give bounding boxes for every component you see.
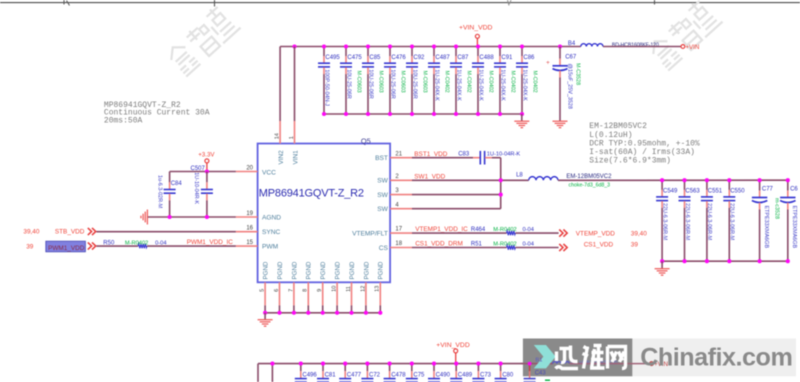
svg-text:C92: C92 [413, 55, 425, 61]
capacitor C91 [494, 47, 515, 115]
ground under C86 [514, 114, 529, 128]
resistor R51 [471, 241, 534, 249]
svg-text:C80: C80 [502, 372, 514, 378]
junction dots top rail [292, 44, 562, 48]
svg-text:EM-12BM05VC2: EM-12BM05VC2 [566, 174, 612, 180]
svg-text:MP86941GQVT-Z_R2: MP86941GQVT-Z_R2 [259, 188, 364, 200]
svg-text:PWM1_VDD: PWM1_VDD [48, 245, 85, 252]
svg-text:10U-25-06R: 10U-25-06R [367, 69, 373, 98]
svg-text:B1: B1 [535, 357, 542, 363]
svg-text:1U-10-04R-K: 1U-10-04R-K [487, 151, 521, 157]
wire VIN1 pin 1 [294, 47, 296, 144]
svg-text:C490: C490 [436, 372, 451, 378]
capacitor C495 [318, 47, 340, 115]
wire VCC rail pin 20 [170, 171, 258, 173]
svg-text:C487: C487 [435, 55, 450, 61]
junction dots right bank bottom rail [660, 259, 790, 263]
power symbol +VIN top right [681, 44, 699, 51]
svg-text:C83: C83 [458, 151, 470, 157]
svg-text:R51: R51 [471, 241, 483, 247]
svg-text:M-C0603: M-C0603 [421, 71, 427, 93]
svg-text:PWM: PWM [262, 244, 278, 251]
capacitor C84 [156, 172, 182, 218]
net name PWM1_VDD highlighted [46, 241, 86, 252]
svg-text:C91: C91 [501, 55, 513, 61]
capacitor C475 [340, 47, 362, 115]
capacitor C87 [450, 47, 471, 115]
capacitor C43 [524, 364, 547, 382]
svg-text:PWM1_VDD_IC: PWM1_VDD_IC [187, 239, 234, 246]
wire BST pin 21 [390, 157, 473, 159]
svg-text:M-R0402: M-R0402 [493, 242, 516, 248]
wire bottom phase left vertical a [257, 364, 259, 382]
wire PWM pin 15 left segment [97, 245, 139, 247]
capacitor C67 [546, 47, 581, 122]
wire BST to SW vertical [500, 158, 502, 209]
capacitor C75 [406, 364, 425, 382]
capacitor C563 [679, 180, 701, 261]
svg-text:17: 17 [395, 227, 402, 233]
svg-text:SYNC: SYNC [262, 229, 281, 236]
junction dots bottom rail [270, 362, 531, 366]
svg-text:+3.3V: +3.3V [198, 152, 215, 159]
ferrite bead B4 [568, 41, 659, 49]
capacitor C549 [656, 180, 678, 261]
off-page connector STB_VDD [88, 228, 92, 235]
wire bottom rail across banner [521, 363, 553, 365]
svg-text:BST: BST [375, 155, 388, 162]
svg-text:@15uF_25V_3528: @15uF_25V_3528 [566, 64, 572, 109]
svg-text:1U-25-04X-K: 1U-25-04X-K [521, 69, 527, 101]
svg-text:C477: C477 [347, 372, 362, 378]
svg-text:VTEMP/FLT: VTEMP/FLT [352, 231, 388, 238]
svg-text:Size(7.6*6.9*3mm): Size(7.6*6.9*3mm) [589, 157, 671, 166]
svg-text:PGND: PGND [349, 261, 356, 279]
svg-text:PGND: PGND [320, 261, 327, 279]
svg-text:STB_VDD: STB_VDD [55, 229, 85, 236]
svg-text:C6: C6 [790, 187, 798, 193]
wire B1 to +VIN [569, 363, 649, 365]
svg-text:3: 3 [395, 188, 399, 194]
svg-text:CS: CS [379, 245, 389, 252]
svg-text:C476: C476 [391, 55, 406, 61]
ground right cap bank [655, 261, 670, 275]
ground AGND left [146, 210, 148, 225]
svg-text:C495: C495 [325, 55, 340, 61]
svg-text:+VIN_VDD: +VIN_VDD [436, 342, 470, 349]
wire CS pin 18 right segment [515, 247, 558, 249]
svg-text:M-C0402: M-C0402 [531, 71, 537, 93]
power symbol +VIN_VDD bottom [436, 342, 470, 364]
svg-text:C84: C84 [171, 181, 183, 187]
svg-text:M-C0603: M-C0603 [355, 71, 361, 93]
svg-text:R464: R464 [471, 227, 486, 233]
svg-text:+: + [546, 59, 550, 66]
svg-text:20ms:50A: 20ms:50A [104, 117, 143, 126]
svg-text:C43: C43 [535, 371, 547, 377]
capacitor C476 [384, 47, 406, 115]
junction dots SW output rail [660, 178, 790, 182]
svg-text:0-04: 0-04 [523, 227, 534, 233]
capacitor C66 right edge [780, 180, 798, 261]
svg-text:C85: C85 [369, 55, 381, 61]
inductor L8 [516, 172, 612, 188]
svg-text:BD-HCB1608KF-120: BD-HCB1608KF-120 [612, 43, 659, 49]
svg-text:C75: C75 [413, 372, 425, 378]
wire right cap bank bottom rail [662, 260, 788, 262]
green partial text under C43 [545, 379, 550, 381]
svg-text:M-R0402: M-R0402 [493, 227, 516, 233]
svg-text:C81: C81 [325, 372, 337, 378]
wire top cap bank bottom rail [324, 113, 522, 115]
svg-text:18: 18 [395, 241, 402, 247]
svg-text:10U-25-06R: 10U-25-06R [345, 69, 351, 98]
power symbol +VIN_VDD top [459, 25, 493, 47]
svg-text:M-C0603: M-C0603 [399, 71, 405, 93]
svg-text:CS1_VDD_DRM: CS1_VDD_DRM [415, 240, 463, 247]
svg-text:C488: C488 [479, 55, 494, 61]
svg-text:SW: SW [377, 206, 388, 213]
svg-text:C87: C87 [457, 55, 469, 61]
off-page connector PWM1_VDD [88, 242, 92, 249]
banner dark background [523, 339, 633, 377]
wire VTEMP pin 17 left segment [390, 232, 507, 234]
svg-text:VIN1: VIN1 [292, 150, 299, 165]
svg-text:C72: C72 [369, 372, 381, 378]
svg-text:0-04: 0-04 [523, 242, 534, 248]
svg-text:C563: C563 [685, 189, 700, 195]
svg-text:CS1_VDD: CS1_VDD [584, 242, 614, 249]
banner text XunWeiWang [556, 346, 626, 369]
svg-text:C475: C475 [347, 55, 362, 61]
svg-text:SW: SW [377, 178, 388, 185]
svg-text:1U-25-04X-K: 1U-25-04X-K [455, 69, 461, 101]
wire +VIN_VDD top rail [280, 46, 581, 48]
capacitor C487 [428, 47, 450, 115]
svg-text:2: 2 [395, 174, 399, 180]
svg-text:AGND: AGND [262, 214, 281, 221]
svg-text:L8: L8 [516, 172, 523, 178]
capacitor C72 [361, 364, 380, 382]
svg-text:Q5: Q5 [361, 137, 371, 146]
off-page connector VTEMP_VDD [559, 230, 563, 237]
svg-text:22U-6.3-06R-M: 22U-6.3-06R-M [729, 203, 735, 241]
pin numbers 5-13 [260, 286, 381, 292]
wire SW pin 4 [390, 208, 501, 210]
capacitor C92 [406, 47, 427, 115]
capacitor C83 [458, 151, 520, 165]
ground PGND rail [258, 313, 273, 326]
svg-text:39: 39 [26, 243, 34, 250]
svg-text:39,40: 39,40 [631, 230, 647, 237]
svg-text:M-R0402: M-R0402 [125, 241, 148, 247]
svg-text:22U-6.3-06R-M: 22U-6.3-06R-M [684, 203, 690, 241]
off-page connector CS1_VDD [559, 244, 563, 251]
note text for Q5 part [104, 101, 210, 126]
svg-text:4: 4 [395, 202, 399, 208]
wires PGND pin stubs [265, 282, 380, 313]
svg-text:PGND: PGND [277, 261, 284, 279]
svg-text:1u-6.3-02R-M: 1u-6.3-02R-M [156, 175, 162, 209]
svg-text:C73: C73 [480, 372, 492, 378]
note text for inductor L8 [589, 122, 700, 165]
svg-text:1U-25-04X-K: 1U-25-04X-K [433, 69, 439, 101]
svg-text:C496: C496 [302, 372, 317, 378]
svg-text:20: 20 [246, 165, 253, 171]
svg-text:1U-25-04X-K: 1U-25-04X-K [477, 69, 483, 101]
wire PGND rail [265, 312, 380, 314]
capacitor C77 [752, 180, 780, 261]
junction dots PGND rail [263, 311, 382, 315]
capacitor C81 [317, 364, 336, 382]
svg-text:PGND: PGND [263, 261, 270, 279]
capacitor C489 [450, 364, 473, 382]
wire VIN2 pin 14 [279, 47, 281, 144]
svg-text:choke-7d3_6d8_3: choke-7d3_6d8_3 [569, 183, 611, 189]
wire SW pin 2 [390, 179, 529, 181]
svg-text:39,40: 39,40 [23, 229, 39, 236]
svg-text:M-C0402: M-C0402 [487, 71, 493, 93]
svg-text:19: 19 [246, 211, 253, 217]
op-amp U1 -- power stage IC Q5 body [258, 144, 391, 283]
junction dots top bank bottom rail [322, 112, 524, 116]
svg-text:16: 16 [246, 226, 253, 232]
svg-text:VTEMP1_VDD_IC: VTEMP1_VDD_IC [415, 226, 468, 233]
wire CS pin 18 left segment [390, 247, 507, 249]
svg-text:+VIN_VDD: +VIN_VDD [459, 25, 493, 32]
svg-text:SW1_VDD: SW1_VDD [414, 173, 445, 180]
svg-text:22U-6.3-06R-M: 22U-6.3-06R-M [706, 203, 712, 241]
svg-text:PGND: PGND [291, 261, 298, 279]
svg-text:10U-25-06R: 10U-25-06R [389, 69, 395, 98]
capacitor C477 [339, 364, 362, 382]
capacitor C80 [495, 364, 514, 382]
svg-text:C86: C86 [523, 55, 535, 61]
svg-text:C67: C67 [565, 55, 577, 61]
svg-text:R50: R50 [103, 240, 115, 246]
svg-text:VTEMP_VDD: VTEMP_VDD [576, 230, 615, 237]
capacitor C478 [384, 364, 407, 382]
svg-text:C478: C478 [391, 372, 406, 378]
svg-text:BST1_VDD: BST1_VDD [414, 151, 447, 158]
capacitor C490 [428, 364, 451, 382]
resistor R50 [103, 240, 166, 248]
svg-text:PGND: PGND [378, 261, 385, 279]
svg-text:ETPE33XMA6GB: ETPE33XMA6GB [791, 206, 797, 249]
pin names PGND x9 [263, 261, 385, 279]
capacitor C496 [295, 364, 318, 382]
svg-text:PGND: PGND [363, 261, 370, 279]
wire SYNC pin 16 [97, 231, 258, 233]
wire VTEMP pin 17 right segment [515, 232, 558, 234]
junction dots AGND rail [168, 215, 209, 219]
svg-text:ETPE33XMA6GB: ETPE33XMA6GB [763, 206, 769, 249]
svg-text:C489: C489 [458, 372, 473, 378]
svg-text:PGND: PGND [335, 261, 342, 279]
svg-text:22U-6.3-06R-M: 22U-6.3-06R-M [661, 203, 667, 241]
junction dot +3.3V [205, 169, 209, 173]
page top border line [0, 0, 800, 7]
svg-text:M-C0402: M-C0402 [465, 71, 471, 93]
svg-text:M-C0402: M-C0402 [443, 71, 449, 93]
capacitor C85 [362, 47, 383, 115]
svg-text:Chinafix.com: Chinafix.com [640, 343, 792, 371]
ferrite bead B1 [535, 357, 617, 366]
svg-text:21: 21 [395, 151, 402, 157]
svg-text:VIN2: VIN2 [278, 150, 285, 165]
svg-text:PGND: PGND [306, 261, 313, 279]
wire bottom phase left vertical b [271, 364, 273, 382]
capacitor C551 [701, 180, 723, 261]
banner light background [632, 339, 796, 377]
wire AGND rail pin 19 [147, 216, 257, 218]
svg-text:M-C0402: M-C0402 [509, 71, 515, 93]
svg-text:B4: B4 [568, 41, 576, 47]
watermark XinZhiZao top-left [164, 2, 241, 76]
banner logo chevron [534, 345, 556, 368]
svg-text:15: 15 [246, 240, 253, 246]
wire SW pin 3 [390, 194, 501, 196]
svg-text:C507: C507 [191, 166, 206, 172]
svg-text:C550: C550 [730, 189, 745, 195]
svg-text:+VIN: +VIN [685, 44, 699, 51]
ground under C67 [553, 120, 568, 122]
svg-text:14: 14 [275, 133, 281, 139]
svg-text:1U-25-04X-K: 1U-25-04X-K [499, 69, 505, 101]
resistor R464 [471, 227, 534, 235]
svg-text:100P-50-04N-J: 100P-50-04N-J [323, 69, 329, 106]
watermark XinZhiZao top-right [646, 0, 723, 71]
power symbol +VIN bottom [650, 361, 668, 368]
junction dots SW node [499, 178, 503, 196]
capacitor C507 [191, 166, 213, 217]
wire PWM pin 15 right segment [147, 245, 258, 247]
capacitor C86 [516, 47, 537, 115]
wire SW output rail [558, 179, 788, 181]
svg-text:39: 39 [631, 242, 639, 249]
svg-text:C77: C77 [762, 187, 774, 193]
wire B4 to +VIN [603, 46, 681, 48]
svg-text:M-C3528: M-C3528 [575, 63, 581, 85]
svg-text:10U-25-06R: 10U-25-06R [411, 69, 417, 98]
svg-text:SW: SW [377, 192, 388, 199]
svg-text:C551: C551 [708, 189, 723, 195]
capacitor C488 [472, 47, 494, 115]
svg-text:1: 1 [289, 136, 295, 139]
capacitor C550 [723, 180, 745, 261]
svg-text:C549: C549 [663, 189, 678, 195]
svg-text:M-C0603: M-C0603 [377, 71, 383, 93]
svg-text:VCC: VCC [262, 170, 276, 177]
capacitor C73 [472, 364, 491, 382]
wire bottom phase input rail [258, 363, 553, 365]
power symbol +3.3V [198, 152, 215, 172]
svg-text:m-c3528: m-c3528 [774, 198, 780, 219]
svg-text:1U-10-04R-K: 1U-10-04R-K [193, 172, 199, 204]
